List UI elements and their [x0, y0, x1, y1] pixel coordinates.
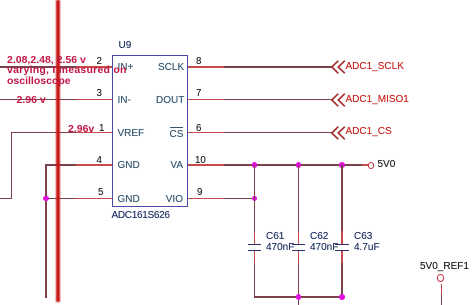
- wire 5V0_REF1 down: [441, 294, 443, 305]
- pin 10 stub of U9: [188, 164, 224, 166]
- pin name GND (pin 5): [118, 195, 140, 205]
- annotation text oscilloscope note: [7, 55, 86, 66]
- pin name DOUT: [156, 96, 183, 106]
- value label 470nF: [310, 243, 338, 253]
- capacitor C63: [335, 244, 349, 246]
- pin number 7: [196, 89, 201, 99]
- pin name VA: [168, 161, 183, 171]
- capacitor C62: [292, 244, 306, 246]
- wire VREF horizontal: [11, 132, 76, 134]
- pin number 9: [197, 188, 202, 198]
- refdes U9: [119, 41, 132, 51]
- wire C62 lower: [298, 263, 300, 305]
- wire bottom ground rail: [254, 296, 343, 298]
- wire C61 upper: [254, 165, 256, 231]
- wire IN+ net left segment: [0, 66, 76, 68]
- wire ADC1_CS: [224, 132, 332, 134]
- net label 5V0_REF1: [420, 262, 469, 272]
- wire VREF vertical drop: [11, 132, 13, 199]
- net label 5V0: [378, 160, 396, 170]
- pin 1 stub of U9: [76, 132, 112, 134]
- pin number 2: [97, 57, 102, 67]
- pin 2 stub of U9: [76, 66, 112, 68]
- wire C61 lower: [254, 263, 256, 297]
- capacitor C61: [248, 244, 262, 246]
- pin name VIO: [164, 195, 183, 205]
- wire GND vertical: [45, 164, 47, 298]
- wire 5V0 VA rail: [224, 164, 362, 166]
- pin 7 stub of U9: [188, 99, 224, 101]
- off-page connector arrow ADC1_CS: [330, 124, 348, 142]
- pin bottom of C63: [341, 251, 343, 263]
- annotation marker thick red line: [56, 0, 61, 302]
- pin number 4: [97, 156, 102, 166]
- annotation text 2.96v: [68, 124, 94, 135]
- op-amp U9 body rectangle: [112, 55, 188, 208]
- wire VREF exit left: [0, 198, 12, 200]
- pin top of C61: [254, 231, 256, 244]
- pin number 1: [99, 124, 104, 134]
- power symbol 5V0_REF1 open circle: [437, 274, 444, 281]
- junction rail / C62: [296, 294, 302, 300]
- value label ADC161S626: [112, 211, 170, 221]
- junction GND node: [43, 196, 49, 202]
- wire GND pin5 horizontal: [45, 198, 76, 200]
- power symbol 5V0 open circle: [368, 162, 375, 169]
- wire C63 upper: [341, 165, 343, 231]
- pin number 3: [97, 89, 102, 99]
- wire IN- net left segment: [0, 99, 76, 101]
- pin top of C62: [298, 231, 300, 244]
- value label 4.7uF: [354, 243, 380, 253]
- wire ADC1_SCLK: [224, 66, 332, 68]
- pin 3 stub of U9: [76, 99, 112, 101]
- off-page connector arrow ADC1_SCLK: [330, 58, 348, 76]
- junction VA / C63: [339, 162, 345, 168]
- pin 9 stub of U9: [188, 198, 224, 200]
- pin bottom of C61: [254, 251, 256, 263]
- junction VA / C62: [296, 162, 302, 168]
- pin 8 stub of U9: [188, 66, 224, 68]
- junction VA / C61: [252, 162, 258, 168]
- value label 470nF: [266, 243, 294, 253]
- refdes C63: [354, 232, 372, 242]
- wire C63 lower: [341, 263, 343, 297]
- net label ADC1_MISO1: [346, 95, 409, 105]
- net label ADC1_SCLK: [346, 62, 404, 72]
- pin name IN+: [118, 63, 134, 73]
- pin name CS with overline: [170, 130, 184, 140]
- refdes C62: [310, 232, 328, 242]
- pin top of C63: [341, 231, 343, 244]
- pin number 10: [195, 156, 206, 166]
- pin bottom of C62: [298, 251, 300, 263]
- pin name VREF: [118, 129, 145, 139]
- wire ADC1_MISO1: [224, 99, 332, 101]
- net label ADC1_CS: [346, 127, 392, 137]
- pin 6 stub of U9: [188, 132, 224, 134]
- wire C62 upper: [298, 165, 300, 231]
- pin number 6: [196, 124, 201, 134]
- wire GND pin4 horizontal: [45, 164, 76, 166]
- annotation text 2.96 v: [17, 95, 46, 106]
- refdes C61: [266, 232, 284, 242]
- pin of 5V0 symbol: [362, 164, 368, 166]
- off-page connector arrow ADC1_MISO1: [330, 91, 348, 109]
- pin name GND (pin 4): [118, 161, 140, 171]
- pin 5 stub of U9: [76, 198, 112, 200]
- pin of 5V0_REF1 symbol: [441, 284, 443, 294]
- pin number 8: [196, 57, 201, 67]
- wire VIO to C61: [224, 198, 255, 200]
- pin name IN-: [118, 96, 131, 106]
- pin 4 stub of U9: [76, 164, 112, 166]
- pin number 5: [98, 188, 103, 198]
- junction VIO / C61: [252, 196, 258, 202]
- pin name SCLK: [158, 63, 183, 73]
- junction rail / C63: [339, 294, 345, 300]
